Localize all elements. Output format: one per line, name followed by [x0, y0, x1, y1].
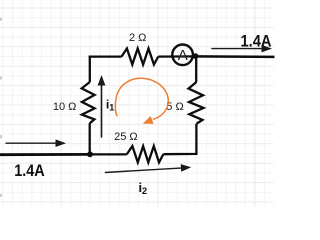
svg-text:1.4A: 1.4A [14, 161, 45, 180]
svg-text:2: 2 [142, 186, 147, 197]
current arrow out of circuit (top-right) [211, 45, 272, 53]
wire: right branch lower segment [163, 124, 196, 155]
branch current arrow i2 (rightward, bottom) [105, 164, 191, 172]
wire: top lead through ammeter [158, 55, 195, 57]
svg-text:1: 1 [109, 102, 114, 112]
ammeter U1 circle [172, 45, 193, 66]
node B junction dot (bottom-left) [87, 151, 93, 157]
svg-text:1.4A: 1.4A [241, 32, 272, 51]
branch current arrow i1 (upward, left mesh) [98, 75, 106, 138]
wire: top-left lead [89, 55, 122, 57]
resistor 5 Ohm (right branch) [189, 82, 204, 124]
svg-text:10 Ω: 10 Ω [53, 101, 77, 113]
mesh current arrow (orange, clockwise) [115, 78, 168, 124]
wire: left branch lower segment [89, 123, 91, 154]
svg-text:A: A [178, 47, 188, 64]
wire: right branch upper segment [195, 56, 197, 82]
wire: top output to right edge [194, 55, 275, 58]
resistor 10 Ohm (left branch) [82, 82, 95, 123]
wire: input feed from left edge to node B [0, 153, 90, 156]
current arrow into circuit (bottom-left) [6, 139, 67, 147]
node C junction dot (right of ammeter) [193, 53, 199, 59]
svg-text:2 Ω: 2 Ω [129, 32, 146, 44]
wire: bottom-left lead [90, 153, 127, 155]
wire: left branch upper segment [89, 56, 91, 83]
svg-text:25 Ω: 25 Ω [114, 131, 138, 143]
resistor 25 Ohm (bottom branch) [127, 146, 164, 162]
resistor 2 Ohm (top branch) [122, 49, 159, 65]
